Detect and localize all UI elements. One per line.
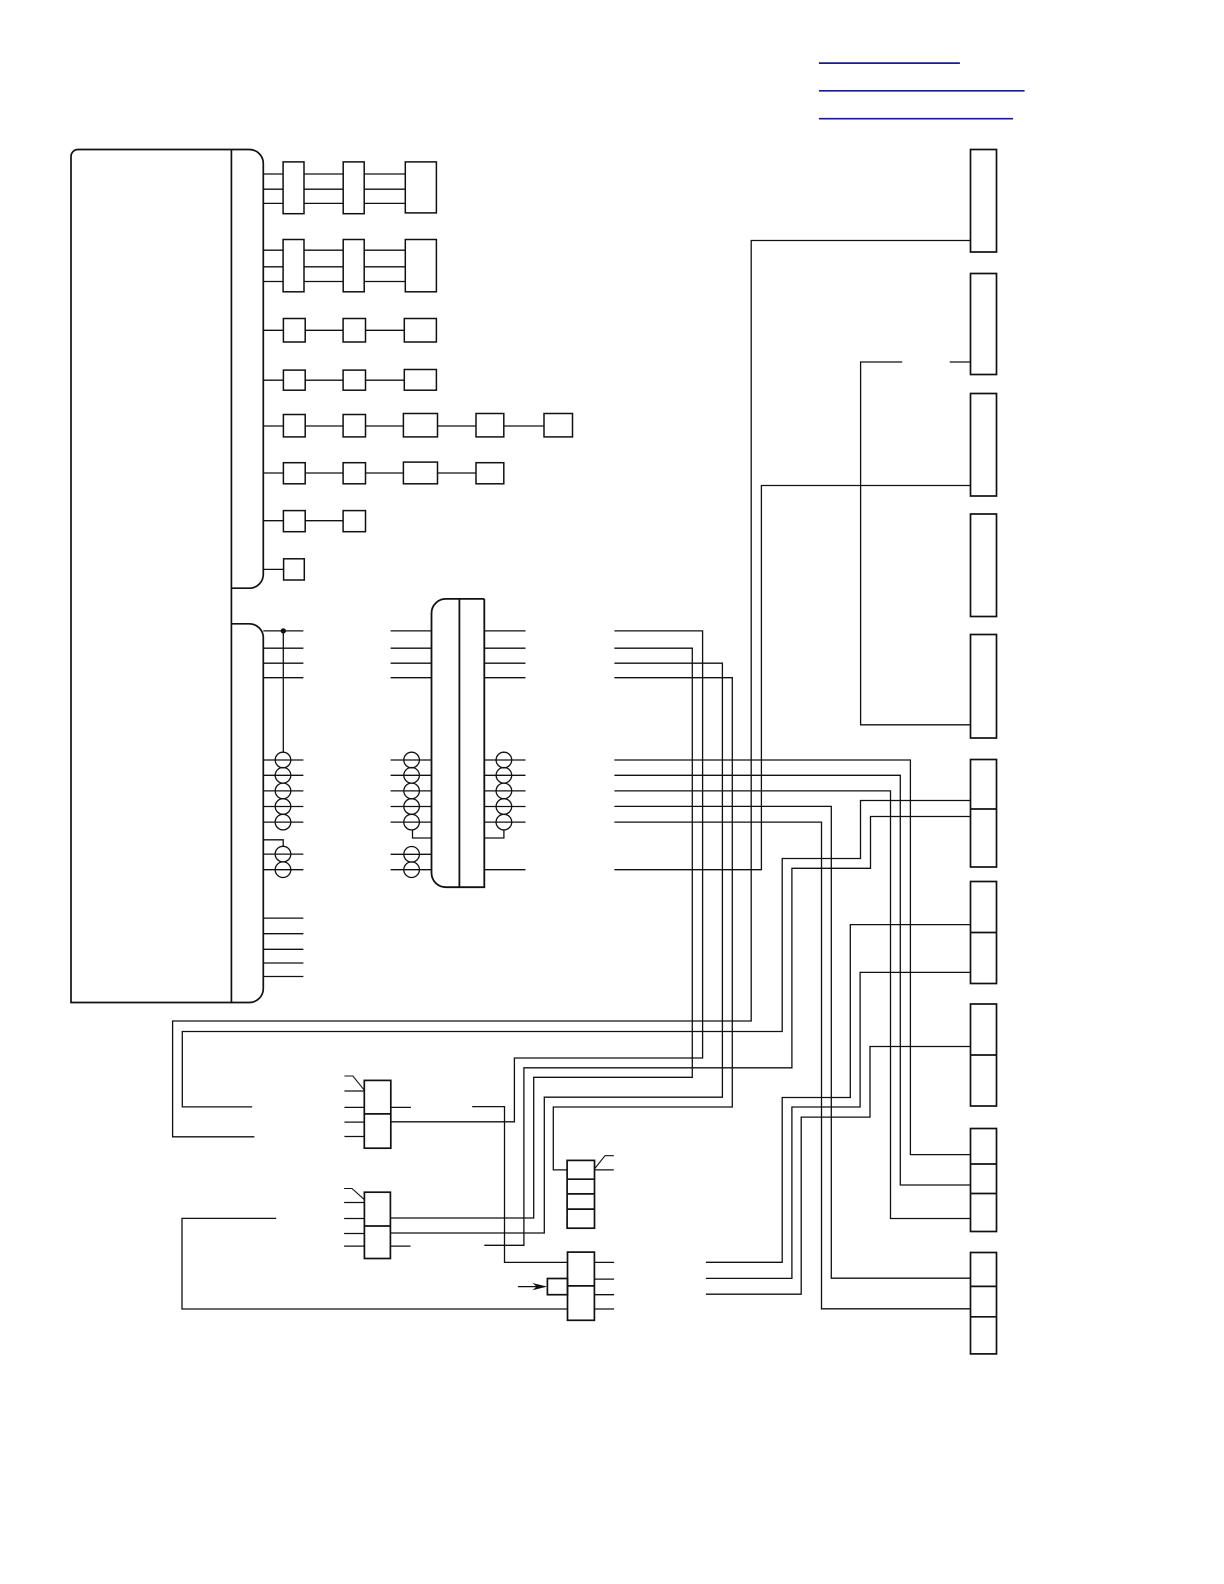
wire CC left jog	[413, 830, 432, 838]
connector block row6 plug2	[343, 463, 365, 484]
board P9 divider 2	[971, 1193, 997, 1195]
wire row4	[263, 379, 404, 381]
connector block row1 device	[405, 162, 436, 213]
board P2	[971, 274, 997, 375]
wire row7	[263, 520, 343, 522]
pin circle CCL1	[404, 752, 420, 768]
wire net P7 cell1 tail	[706, 925, 971, 1263]
connector block row4 plug1	[283, 370, 305, 390]
wire strip-B bottom stub 5	[263, 976, 303, 978]
hyperlink underline 2	[819, 90, 1025, 92]
wire CC left t3	[391, 662, 432, 664]
connector block row5 device3	[544, 414, 573, 437]
wire net CN2 cell1 feed (label gap segment)	[472, 1107, 567, 1263]
wire net c7 (CC to board P3)	[614, 486, 970, 870]
wire net B (bottom-left loop to board P6 cell1 via jog)	[182, 801, 970, 1107]
wire CN2 right stub 3	[594, 1294, 614, 1296]
wire strip-B jog to circle 6	[263, 840, 283, 847]
wire strip-B circle row 5	[263, 821, 303, 823]
wire IC U1 left pin 2	[344, 1106, 364, 1108]
board P8 divider	[971, 1054, 997, 1056]
wire net c4 (CC to board P10 cell1)	[614, 806, 970, 1278]
connector CN2 divider	[568, 1285, 595, 1287]
wire stub IC1 right pin upper	[391, 1106, 411, 1108]
connector block row6 device1	[403, 462, 437, 484]
IC U2 divider	[364, 1225, 390, 1227]
CN1 corner diagonal marker	[595, 1156, 614, 1169]
arrow pointer into CN2 key box	[518, 1286, 539, 1288]
wire net P6 cell2 feed (IC2 pin3 label gap segment)	[484, 817, 970, 1246]
pin circle B6	[275, 846, 291, 862]
wire row8	[263, 568, 283, 570]
wire net c1 (CC to board P9 cell1)	[614, 760, 970, 1155]
harness connector CC body	[432, 599, 485, 887]
pin circle B4	[275, 799, 291, 815]
hyperlink underline 1	[819, 62, 960, 64]
wire CC left c1	[391, 759, 432, 761]
wire CN2 right stub 1	[594, 1261, 614, 1263]
wire net A (bottom-left loop to board P1)	[173, 241, 971, 1137]
wire row6	[263, 472, 476, 474]
wire CC left c4	[391, 806, 432, 808]
wire row2 b	[263, 266, 283, 268]
wire net P7 cell2 tail	[706, 972, 971, 1278]
wire CC right jog	[484, 830, 504, 838]
wire net P8 cell1 tail	[706, 1047, 971, 1295]
wire row1 b	[263, 188, 283, 190]
connector block row3 plug1	[283, 319, 305, 343]
wire strip-B bottom stub 3	[263, 948, 303, 950]
pin circle B2	[275, 768, 291, 784]
connector block row2 plug2	[343, 240, 364, 292]
wire CC right t3	[484, 662, 525, 664]
wire net t4 (CC to connector CN1)	[553, 678, 732, 1170]
board P7	[971, 882, 997, 984]
wire IC U1 left pin 1	[344, 1090, 364, 1092]
wire CC left c6	[391, 853, 432, 855]
connector CN1 body	[567, 1160, 594, 1228]
connector CN1 divider 2	[567, 1193, 594, 1195]
connector CN2 side key box	[547, 1279, 567, 1295]
wire CC right c1	[484, 759, 525, 761]
pin circle CCR5	[496, 814, 512, 830]
board P5	[971, 635, 997, 739]
wire strip-B bottom stub 1	[263, 917, 303, 919]
connector CN1 divider 1	[567, 1178, 594, 1180]
connector block row1 plug2	[343, 162, 364, 214]
pin circle CCL7	[404, 862, 420, 878]
pin circle CCL5	[404, 814, 420, 830]
wire junction drop to pin circle 1	[282, 631, 284, 752]
wire net CN2 cell2 feed with left stub	[182, 1218, 568, 1309]
board P10	[971, 1253, 997, 1354]
hyperlink underline 3	[819, 118, 1013, 120]
connector block row4 device	[404, 370, 436, 391]
connector block row1 plug1	[283, 162, 304, 214]
wire stub IC2 pin3	[390, 1245, 410, 1247]
IC U1 divider	[364, 1113, 391, 1115]
pin circle CCL2	[404, 768, 420, 784]
board P9	[971, 1129, 997, 1232]
connector block row6 device2	[476, 463, 504, 484]
wire strip-B pin stub t3	[263, 662, 303, 664]
wire row2 a	[263, 250, 405, 281]
wire strip-B circle row 1	[263, 759, 303, 761]
wire strip-B circle row 3	[263, 790, 303, 792]
wire strip-B circle row 7	[263, 869, 303, 871]
wire CC left t2	[391, 647, 432, 649]
wire strip-B pin stub t1	[263, 630, 303, 632]
wire net t1 (CC to IC1 right pin)	[391, 631, 703, 1122]
connector block row7 plug2	[343, 511, 365, 532]
connector block row5 plug1	[283, 415, 305, 437]
pin circle CCR1	[496, 752, 512, 768]
wire CN2 right stub 2	[594, 1278, 614, 1280]
wire stub board P2	[950, 361, 971, 363]
pin circle CCL6	[404, 847, 420, 863]
pin circle CCL3	[404, 783, 420, 799]
IC U1 body	[364, 1080, 391, 1148]
pin circle CCR2	[496, 768, 512, 784]
connector block row5 plug2	[343, 415, 365, 437]
board P3	[971, 394, 997, 497]
pin circle B1	[275, 752, 291, 768]
wire CC right t4	[484, 677, 525, 679]
wire row2 c	[263, 281, 283, 283]
connector block row7 plug1	[283, 511, 305, 532]
connector block row4 plug2	[343, 370, 365, 390]
wire CC left c7	[391, 869, 432, 871]
wire net P5 feed (label gap at P2)	[861, 362, 971, 725]
pin circle CCR4	[496, 799, 512, 815]
wire CN1 right stub	[595, 1169, 614, 1171]
wire CC right c5	[484, 821, 525, 823]
wire strip-B pin stub t4	[263, 677, 303, 679]
connector block row2 plug1	[283, 240, 304, 292]
wire CN2 right stub 4	[594, 1308, 614, 1310]
connector strip A (upper rounded lobe of main board)	[231, 150, 263, 589]
wire CC left c3	[391, 790, 432, 792]
board P7 divider	[971, 932, 997, 934]
board P10 divider 2	[971, 1316, 997, 1318]
wire net t3 (CC to IC2 right pin 2)	[390, 663, 722, 1233]
wire strip-B circle row 6	[263, 853, 303, 855]
pin circle CCR3	[496, 783, 512, 799]
wire strip-B circle row 2	[263, 774, 303, 776]
pin circle B7	[275, 862, 291, 878]
connector strip B (lower rounded lobe of main board)	[231, 624, 263, 1003]
wire strip-B pin stub t2	[263, 647, 303, 649]
wire CC left t4	[391, 677, 432, 679]
board P6 divider	[971, 808, 997, 810]
wire net c3 (CC to board P9 cell3)	[614, 791, 970, 1219]
board P8	[971, 1004, 997, 1106]
connector block row3 plug2	[343, 319, 365, 343]
board P6	[971, 760, 997, 868]
wire CC right c4	[484, 806, 525, 808]
wire row1 c	[263, 202, 283, 204]
wire strip-B bottom stub 2	[263, 933, 303, 935]
wire IC U2 left pin 1	[344, 1202, 364, 1204]
wire net c5 (CC to board P10 cell2)	[614, 822, 970, 1309]
board P4	[971, 514, 997, 617]
connector block row2 device	[405, 240, 436, 292]
wire IC U2 left pin 2	[344, 1218, 364, 1220]
wire row5	[263, 425, 544, 427]
wire IC U1 left pin 4	[344, 1136, 364, 1138]
wire CC right c7	[484, 869, 525, 871]
wire row3	[263, 329, 404, 331]
pin circle B3	[275, 783, 291, 799]
connector block row8 plug1	[284, 559, 305, 580]
wire CC left c2	[391, 774, 432, 776]
wire row1 a	[263, 174, 405, 203]
wire CC right t1	[484, 630, 525, 632]
connector block row3 device	[404, 319, 436, 343]
IC U2 corner diagonal	[344, 1189, 364, 1200]
main board outline (left large block)	[71, 150, 231, 1003]
wire IC U2 left pin 3	[344, 1233, 364, 1235]
wire CC right c2	[484, 774, 525, 776]
wire strip-B circle row 4	[263, 806, 303, 808]
harness connector CC inner divider	[458, 599, 460, 887]
board P1	[971, 150, 997, 253]
junction dot on stub t1	[281, 628, 286, 633]
pin circle CCL4	[404, 799, 420, 815]
connector block row5 device1	[403, 414, 437, 437]
connector CN1 divider 3	[567, 1208, 594, 1210]
pin circle B5	[275, 814, 291, 830]
connector block row6 plug1	[283, 463, 305, 484]
wire IC U1 left pin 3	[344, 1121, 364, 1123]
wire CC right t2	[484, 647, 525, 649]
board P10 divider 1	[971, 1285, 997, 1287]
wire CC left t1	[391, 630, 432, 632]
connector block row5 device2	[476, 414, 504, 437]
IC U2 body	[364, 1192, 390, 1258]
wire CC right c3	[484, 790, 525, 792]
wire CC left c5	[391, 821, 432, 823]
connector CN2 body	[568, 1252, 595, 1320]
wire IC U2 left pin 4	[344, 1245, 364, 1247]
wire net c2 (CC to board P9 cell2)	[614, 775, 970, 1185]
IC U1 corner diagonal	[344, 1076, 364, 1090]
wire net t2 (CC to IC2 right pin 1)	[390, 648, 692, 1218]
board P9 divider 1	[971, 1163, 997, 1165]
wire strip-B bottom stub 4	[263, 962, 303, 964]
